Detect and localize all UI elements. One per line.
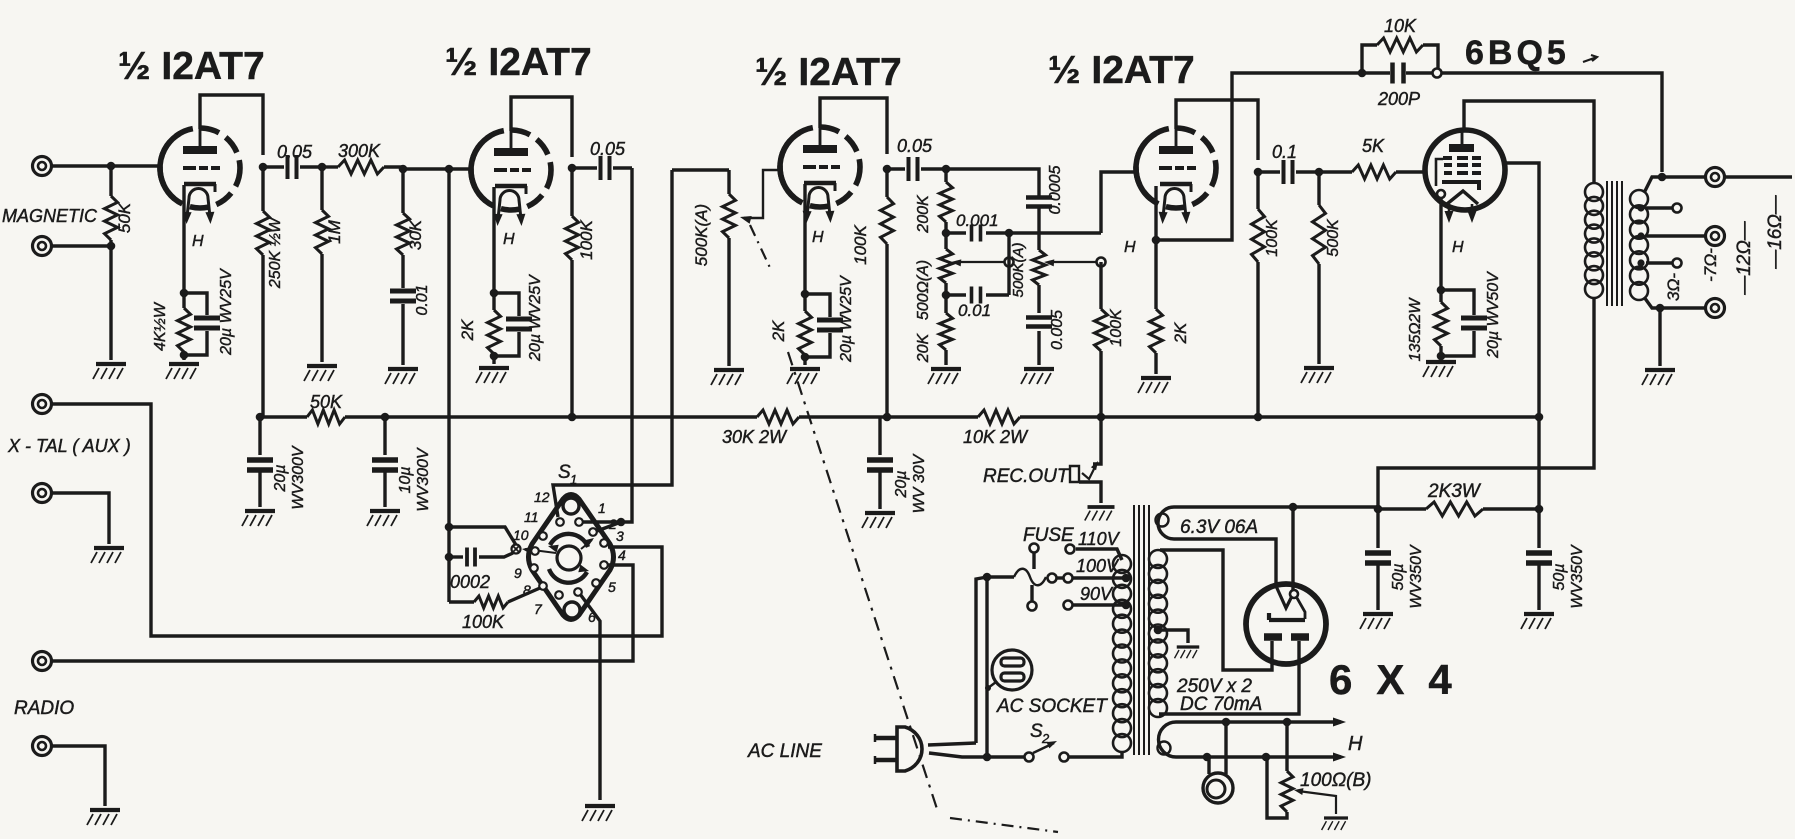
wire 6X4 left plate to HV top: [1160, 550, 1272, 670]
svg-text:WV300V: WV300V: [290, 445, 307, 509]
svg-text:20µ WV50V: 20µ WV50V: [1485, 271, 1502, 359]
wire V4 grid drop: [1101, 172, 1137, 233]
wire secondary to ground: [1658, 308, 1661, 366]
svg-text:½ I2AT7: ½ I2AT7: [118, 45, 265, 88]
wire 6X4 right plate to HV bottom: [1159, 641, 1299, 714]
svg-text:0.0005: 0.0005: [1047, 165, 1064, 214]
output transformer primary coil: [1585, 183, 1603, 201]
H arrows: [1333, 718, 1346, 727]
S1 wiper terminal cross: [512, 545, 521, 554]
ground V4 cathode: [1138, 378, 1171, 393]
node V2 plate / coupling: [568, 164, 577, 173]
terminal 100V: [1064, 574, 1073, 583]
gang dash line from volume pot: [750, 225, 772, 272]
wire X-TAL gnd: [52, 493, 109, 544]
capacitor 0.05 coupling 2: [572, 166, 597, 169]
S1 contact pin 3: [600, 539, 608, 547]
svg-text:20µ: 20µ: [893, 470, 910, 498]
node feedback tap: [1658, 173, 1667, 182]
node 200K bottom: [942, 229, 951, 238]
resistor 2K V2 cathode: [492, 293, 495, 310]
output transformer secondary coil: [1630, 190, 1648, 208]
gang dash line to S2: [950, 818, 1058, 832]
wire AC rail A: [976, 577, 987, 743]
ground V1 cathode: [166, 364, 199, 379]
wiper arrow 500ohm pot: [956, 261, 1009, 263]
power transformer primary coil: [1113, 555, 1131, 573]
svg-text:H: H: [503, 231, 515, 248]
wire socket lead: [988, 682, 996, 688]
svg-text:H: H: [192, 233, 204, 250]
capacitor 0.05 coupling 3: [887, 167, 905, 170]
wire S1 pin1 pin2 feed: [583, 522, 621, 531]
capacitor 10u WV300V: [383, 417, 386, 455]
svg-text:12: 12: [534, 489, 550, 505]
potentiometer 500K(A) tone: [1037, 208, 1040, 250]
tap 100V: [1122, 574, 1131, 583]
node B+ rail: [568, 413, 577, 422]
wire 6X4 filament to B+: [1291, 507, 1294, 590]
ground 10u WV300V: [367, 511, 400, 526]
svg-text:DC 70mA: DC 70mA: [1180, 694, 1262, 715]
wire rail to REC OUT jack: [1093, 417, 1101, 464]
small mark near 6BQ5: [1583, 55, 1597, 62]
node magnetic gnd joint: [107, 242, 116, 251]
tap 90V: [1122, 601, 1131, 610]
node V2 cathode top: [490, 289, 499, 298]
node filter 1: [1374, 505, 1383, 514]
ground RADIO: [87, 810, 120, 825]
output transformer core: [1607, 181, 1622, 306]
svg-text:6X4: 6X4: [1329, 656, 1476, 703]
capacitor 0.002: [449, 555, 463, 558]
svg-text:½ I2AT7: ½ I2AT7: [755, 51, 902, 94]
S1 contact pin 6: [574, 588, 582, 596]
fuse element: [987, 575, 1014, 578]
ground volume pot: [711, 370, 744, 385]
terminal 110V: [1066, 545, 1075, 554]
svg-text:WV350V: WV350V: [1569, 544, 1586, 608]
capacitor 20u WV25V V3 bypass: [805, 294, 830, 317]
node B+ rail: [1254, 413, 1263, 422]
tube V1 1/2 12AT7: [160, 126, 240, 217]
svg-text:100K: 100K: [577, 219, 596, 259]
node V3 cathode top: [801, 290, 810, 299]
svg-text:½ I2AT7: ½ I2AT7: [1048, 49, 1195, 92]
node 500ohm bottom: [942, 291, 951, 300]
svg-text:100K: 100K: [1264, 218, 1281, 257]
wiper 100ohm: [1298, 791, 1336, 814]
ground 50u second: [1521, 614, 1554, 629]
resistor 300K: [322, 165, 338, 168]
S1 contact pin 11: [539, 532, 547, 540]
svg-text:WV350V: WV350V: [1408, 544, 1425, 608]
svg-text:0.005: 0.005: [1049, 310, 1066, 350]
heater winding hairpin: [1159, 722, 1342, 757]
wire secondary top to 16ohm: [1644, 177, 1706, 193]
node 0.002 top: [445, 523, 454, 532]
resistor 2K3W: [1426, 502, 1483, 516]
S1 contact pin 10: [531, 547, 539, 555]
tube V3 1/2 12AT7: [780, 125, 860, 216]
svg-text:X - TAL ( AUX ): X - TAL ( AUX ): [7, 436, 131, 456]
ground 0.005: [1021, 369, 1054, 384]
tap 3 wire to 12ohm terminal: [1637, 232, 1644, 239]
potentiometer 500K(A) volume: [727, 170, 730, 194]
S1 contact pin 5: [592, 579, 600, 587]
svg-text:-7Ω-: -7Ω-: [1701, 248, 1720, 282]
resistor 2K V3 cathode: [803, 294, 806, 311]
input terminal MAGNETIC hot: [33, 157, 52, 176]
svg-text:135Ω2W: 135Ω2W: [1407, 297, 1424, 362]
open node wiper2: [1097, 258, 1106, 267]
svg-text:0.1: 0.1: [1272, 142, 1297, 162]
wire down to S1 pins 9-10: [447, 169, 450, 602]
wire vertical 0.001-0.01 join: [1007, 233, 1010, 295]
wire grid V2: [403, 167, 471, 170]
svg-text:4K½W: 4K½W: [152, 301, 169, 351]
svg-text:REC.OUT: REC.OUT: [983, 466, 1070, 487]
wire 16ohm stub: [1725, 175, 1792, 178]
ground V2 cathode: [476, 368, 509, 383]
svg-text:6BQ5: 6BQ5: [1465, 34, 1570, 72]
svg-text:0002: 0002: [450, 572, 490, 592]
ground 20K: [928, 369, 961, 384]
svg-text:10K: 10K: [1384, 16, 1417, 36]
ground 6BQ5 cathode: [1423, 362, 1456, 377]
svg-text:2: 2: [1041, 731, 1050, 746]
wire 6BQ5 screen to B+: [1504, 163, 1539, 417]
svg-text:20µ WV25V: 20µ WV25V: [527, 274, 544, 362]
svg-text:0.01: 0.01: [958, 301, 991, 320]
svg-text:RADIO: RADIO: [14, 698, 74, 719]
ground S1: [582, 806, 615, 821]
open node 200P right: [1433, 69, 1442, 78]
node 6BQ5 cathode top: [1437, 286, 1446, 295]
gang dash line diagonal: [788, 352, 938, 812]
wire AC rail B: [985, 577, 988, 757]
svg-text:½ I2AT7: ½ I2AT7: [445, 41, 592, 84]
wire OPT primary bottom to filter: [1378, 298, 1594, 509]
6X4 cathode bar: [1269, 613, 1305, 620]
S1 contact pin 7: [555, 591, 563, 599]
svg-text:200K: 200K: [915, 194, 932, 234]
ground secondary: [1642, 370, 1675, 385]
tube 6X4 rectifier: [1246, 584, 1326, 664]
fuse clip bottom: [1028, 602, 1037, 611]
svg-text:500Ω(A): 500Ω(A): [915, 260, 932, 320]
6.3V winding hairpin: [1158, 507, 1293, 586]
S1 contact pin 1: [575, 518, 583, 526]
ground 500K: [1301, 368, 1334, 383]
svg-text:50µ: 50µ: [1551, 563, 1568, 590]
ground 100ohm wiper: [1322, 818, 1348, 830]
wire V2 plate top route: [511, 97, 572, 157]
ground 20u WV300V: [242, 511, 275, 526]
fuse clip top: [1030, 544, 1039, 553]
resistor 200K: [944, 169, 947, 182]
power transformer HV secondary coil: [1149, 550, 1167, 568]
wire jack sleeve to ground: [1079, 482, 1101, 503]
resistor 135ohm 2W: [1439, 290, 1442, 302]
svg-text:250K ½W: 250K ½W: [267, 216, 284, 289]
input terminal X-TAL gnd: [33, 484, 52, 503]
capacitor 20u WV300V: [258, 417, 261, 455]
svg-text:—16Ω—: —16Ω—: [1765, 194, 1786, 270]
svg-text:H: H: [1348, 733, 1363, 755]
potentiometer 500ohm(A): [944, 233, 947, 249]
wire 6BQ5 cathode: [1439, 198, 1442, 290]
S1 contact pin 2: [589, 528, 597, 536]
node feedback 200P left: [1358, 69, 1367, 78]
wire MAGNETIC input to V1 grid: [52, 164, 161, 167]
svg-text:WV300V: WV300V: [415, 447, 432, 511]
wire to S2: [987, 755, 1024, 758]
wire 6BQ5 plate to OPT: [1464, 101, 1594, 184]
wire primary top to 110V: [1076, 549, 1122, 560]
node V1 cathode top: [180, 289, 189, 298]
svg-text:H: H: [1124, 239, 1136, 256]
svg-text:100V: 100V: [1076, 556, 1120, 576]
pilot lamp: [1209, 723, 1226, 774]
capacitor 20u WV25V V1 bypass: [184, 293, 207, 315]
S1 contact pin 12: [556, 518, 564, 526]
wire V2 cathode: [492, 187, 495, 293]
S1 mounting hole top: [563, 498, 579, 514]
capacitor 0.1 coupling: [1258, 170, 1280, 173]
power transformer core: [1134, 505, 1149, 755]
node heater line: [1203, 753, 1212, 762]
capacitor 0.005: [1026, 318, 1052, 327]
svg-text:0.05: 0.05: [897, 136, 933, 156]
svg-text:50K: 50K: [310, 392, 343, 412]
svg-text:1: 1: [570, 472, 577, 487]
svg-text:1: 1: [598, 500, 606, 516]
AC plug: [897, 727, 922, 771]
wire RADIO to S1 pin4: [52, 565, 633, 661]
capacitor 20u WV25V V2 bypass: [494, 293, 519, 316]
node B+ rail: [1097, 413, 1106, 422]
capacitor 0.001: [946, 231, 966, 234]
node V1 cathode bottom: [180, 351, 189, 360]
resistor 5K: [1319, 170, 1352, 173]
node filter 2: [1535, 505, 1544, 514]
node B+ rail: [883, 413, 892, 422]
ground X-TAL: [91, 548, 124, 563]
input terminal X-TAL hot: [33, 395, 52, 414]
wiper arrow tone pot: [1049, 261, 1101, 263]
6X4 plates: [1264, 633, 1309, 641]
svg-text:30K 2W: 30K 2W: [722, 427, 788, 447]
svg-text:200P: 200P: [1377, 89, 1420, 109]
node B+ rail: [1535, 413, 1544, 422]
svg-text:100Ω(B): 100Ω(B): [1300, 770, 1371, 791]
svg-text:300K: 300K: [338, 141, 381, 161]
node HV center tap: [1154, 626, 1163, 635]
speaker terminal 3ohm: [1706, 299, 1725, 318]
resistor 500K 6BQ5 grid: [1317, 172, 1320, 205]
svg-text:2K: 2K: [769, 320, 788, 342]
AC socket: [992, 650, 1032, 690]
wire S1 pin12 to pot top: [553, 170, 672, 517]
node heater line: [1262, 753, 1271, 762]
svg-text:3Ω-: 3Ω-: [1664, 273, 1683, 301]
node V3 cathode bottom: [801, 353, 810, 362]
capacitor 0.01 tone: [946, 293, 966, 296]
svg-text:100K: 100K: [851, 224, 870, 264]
ground REC OUT: [1085, 507, 1115, 521]
node 30K top: [399, 165, 408, 174]
svg-text:7: 7: [534, 601, 543, 617]
resistor 100K tone return: [1099, 262, 1102, 309]
selector switch S1 body: [529, 495, 614, 620]
potentiometer 100ohm(B) hum balance: [1285, 723, 1288, 771]
capacitor 200P: [1362, 71, 1390, 74]
tap 2 wire: [1637, 204, 1644, 211]
ground 50u first: [1360, 614, 1393, 629]
svg-text:50K: 50K: [115, 202, 134, 233]
svg-text:0.05: 0.05: [590, 139, 626, 159]
svg-text:10: 10: [513, 527, 529, 543]
svg-text:FUSE: FUSE: [1023, 525, 1074, 546]
open node wiper1: [1005, 258, 1014, 267]
ground 30K/0.01: [385, 369, 418, 384]
tube V2 1/2 12AT7: [471, 128, 551, 219]
svg-text:20µ: 20µ: [272, 464, 289, 492]
S1 rotor arrow to pin2: [581, 540, 592, 549]
node V1 plate / coupling: [259, 163, 268, 172]
resistor 10K feedback: [1362, 45, 1377, 71]
node B+ rail: [381, 413, 390, 422]
node heater line: [1283, 718, 1292, 727]
svg-text:WV 30V: WV 30V: [911, 453, 928, 513]
wire 0.05 to S1 pin1: [625, 168, 632, 522]
wire RADIO gnd: [52, 746, 105, 806]
wire secondary bottom: [1644, 297, 1706, 308]
svg-text:100K: 100K: [1108, 308, 1125, 347]
node V3 plate: [883, 165, 892, 174]
svg-text:0.05: 0.05: [277, 142, 313, 162]
wire screen node to filter: [1537, 417, 1540, 509]
resistor 2K V4 cathode: [1154, 240, 1157, 309]
svg-text:3: 3: [616, 528, 624, 544]
node S1 feed tap: [445, 165, 454, 174]
wire pot top horizontal: [672, 168, 729, 171]
resistor 50K rail: [307, 410, 345, 424]
ground 20u WV30V: [862, 513, 895, 528]
svg-text:MAGNETIC: MAGNETIC: [2, 206, 98, 226]
ground V3 cathode: [787, 369, 820, 384]
capacitor 20u WV30V: [878, 417, 881, 455]
svg-text:10K 2W: 10K 2W: [963, 427, 1029, 447]
resistor 100K V2 plate load: [570, 168, 573, 216]
node 5K left / 500K top: [1315, 168, 1324, 177]
svg-text:6.3V 06A: 6.3V 06A: [1180, 517, 1258, 538]
svg-text:0.01: 0.01: [414, 284, 431, 315]
capacitor 50u WV350V second: [1537, 509, 1540, 548]
capacitor 20u WV50V: [1441, 290, 1474, 315]
node AC bottom: [983, 753, 992, 762]
node 0.002 bottom: [445, 553, 454, 562]
B+ rail: [260, 415, 307, 418]
S1 mounting hole bottom: [564, 602, 580, 618]
node input: [107, 162, 116, 171]
node fuse line: [983, 573, 992, 582]
svg-text:0.001: 0.001: [956, 211, 999, 230]
tube 6BQ5: [1425, 128, 1505, 210]
svg-text:1M: 1M: [325, 219, 344, 243]
svg-text:4: 4: [618, 547, 626, 563]
S1 contact pin 4: [600, 561, 608, 569]
svg-text:20µ WV25V: 20µ WV25V: [218, 268, 235, 356]
node S1 pin1 feed: [617, 518, 626, 527]
input terminal MAGNETIC gnd: [33, 237, 52, 256]
wire feedback from output: [1442, 73, 1662, 172]
node secondary ground tap: [1656, 304, 1665, 313]
svg-text:110V: 110V: [1078, 529, 1121, 549]
switch S2: [1025, 753, 1034, 762]
wire V3 cathode: [803, 184, 806, 294]
svg-text:500K: 500K: [1325, 218, 1342, 257]
REC OUT jack symbol: [1070, 466, 1079, 482]
wire V1 cathode: [182, 185, 185, 293]
capacitor 0.0005: [1026, 198, 1052, 207]
tube V4 1/2 12AT7: [1136, 126, 1216, 217]
svg-text:H: H: [812, 229, 824, 246]
node V2 cathode bottom: [490, 352, 499, 361]
wire treble line to grid node: [1009, 231, 1101, 234]
svg-text:500K(A): 500K(A): [1010, 242, 1027, 297]
svg-text:H: H: [1452, 239, 1464, 256]
wire V4 cathode: [1154, 186, 1157, 240]
svg-text:90V: 90V: [1080, 584, 1114, 604]
input terminal RADIO hot: [33, 652, 52, 671]
resistor 10K 2W: [978, 410, 1020, 424]
svg-text:9: 9: [514, 565, 522, 581]
ground 1M: [304, 366, 337, 381]
S1 rotor: [557, 546, 581, 570]
input terminal RADIO gnd: [33, 737, 52, 756]
svg-text:2K: 2K: [1171, 322, 1190, 344]
filter line: [1293, 507, 1426, 509]
S1 contact pin 9: [530, 564, 538, 572]
resistor 30K 2W: [757, 410, 799, 424]
resistor 20K: [944, 295, 947, 313]
node heater line: [1222, 718, 1231, 727]
node tone top: [942, 165, 951, 174]
wire feedback to V4 cathode: [1156, 73, 1362, 240]
terminal 90V: [1064, 601, 1073, 610]
svg-text:AC LINE: AC LINE: [747, 741, 822, 762]
wire V3 plate top route: [820, 98, 887, 154]
wire HV center tap ground: [1158, 630, 1188, 643]
svg-text:11: 11: [524, 509, 539, 525]
node B+ rail: [256, 413, 265, 422]
resistor 250K 1/2W: [261, 167, 264, 211]
svg-text:30K: 30K: [406, 219, 425, 250]
S1 contact pin 8: [539, 582, 547, 590]
capacitor 0.05 coupling 1: [263, 165, 284, 168]
wiper arrow volume pot to V3 grid: [744, 170, 780, 218]
heater arrows 6BQ5: [1448, 204, 1451, 216]
svg-text:5: 5: [608, 579, 616, 595]
resistor 100K V3 plate load: [885, 169, 888, 197]
svg-text:2K: 2K: [458, 319, 477, 341]
S1 rotor arrow to pin10: [525, 549, 556, 553]
node V4 plate: [1254, 168, 1263, 177]
wire V1 plate top route: [200, 95, 263, 155]
capacitor 0.01 under 30K: [390, 291, 416, 301]
